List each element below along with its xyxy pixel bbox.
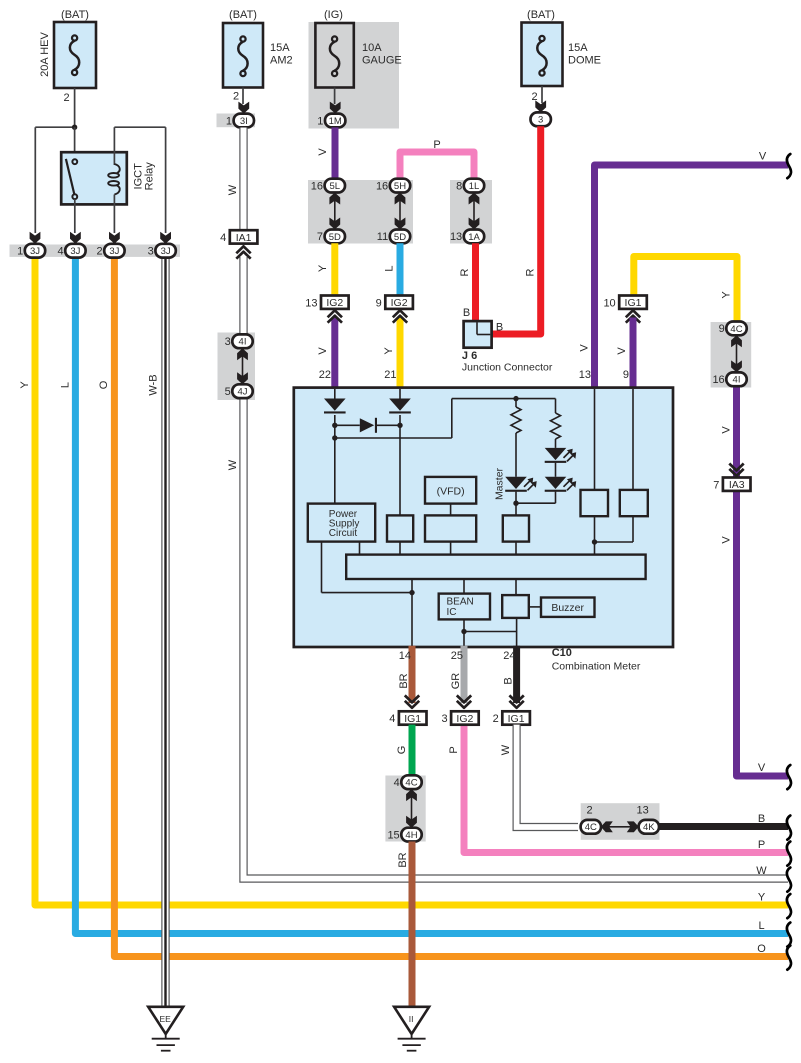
svg-text:3: 3 xyxy=(148,246,154,258)
svg-text:1: 1 xyxy=(17,246,23,258)
svg-text:Master: Master xyxy=(494,467,506,500)
svg-text:5H: 5H xyxy=(394,181,406,192)
svg-text:10: 10 xyxy=(603,297,615,309)
svg-text:25: 25 xyxy=(451,650,463,662)
svg-text:24: 24 xyxy=(503,650,515,662)
svg-text:4: 4 xyxy=(57,246,63,258)
svg-text:3J: 3J xyxy=(161,246,171,257)
svg-text:IG1: IG1 xyxy=(508,713,525,725)
svg-text:IA1: IA1 xyxy=(236,232,252,244)
svg-text:3J: 3J xyxy=(30,246,40,257)
svg-text:L: L xyxy=(384,265,396,271)
svg-text:20A HEV: 20A HEV xyxy=(39,32,51,77)
svg-text:9: 9 xyxy=(719,323,725,335)
svg-text:R: R xyxy=(459,268,471,276)
svg-text:4J: 4J xyxy=(237,387,247,398)
svg-text:15A: 15A xyxy=(270,42,290,54)
svg-text:B: B xyxy=(463,307,470,319)
svg-text:4I: 4I xyxy=(239,337,247,348)
svg-text:4: 4 xyxy=(220,232,226,244)
svg-text:IG2: IG2 xyxy=(391,297,408,309)
svg-text:Y: Y xyxy=(317,264,329,272)
svg-text:GR: GR xyxy=(450,673,462,690)
svg-text:1M: 1M xyxy=(329,116,342,127)
svg-text:IG1: IG1 xyxy=(404,713,421,725)
svg-text:2: 2 xyxy=(63,92,69,104)
svg-text:11: 11 xyxy=(377,231,388,243)
svg-text:2: 2 xyxy=(96,246,102,258)
svg-text:5D: 5D xyxy=(394,232,406,243)
svg-text:3I: 3I xyxy=(240,116,248,127)
svg-text:W-B: W-B xyxy=(148,374,160,395)
svg-text:2: 2 xyxy=(531,91,537,103)
svg-text:4C: 4C xyxy=(585,822,597,833)
svg-text:13: 13 xyxy=(305,297,317,309)
svg-text:9: 9 xyxy=(376,297,382,309)
svg-text:C10: C10 xyxy=(552,647,572,659)
svg-text:V: V xyxy=(317,148,329,156)
svg-text:GAUGE: GAUGE xyxy=(362,55,402,67)
svg-text:8: 8 xyxy=(456,180,462,192)
svg-text:P: P xyxy=(433,139,440,151)
svg-text:1: 1 xyxy=(317,115,323,127)
svg-text:IG2: IG2 xyxy=(326,297,343,309)
svg-text:Relay: Relay xyxy=(144,162,156,191)
svg-text:V: V xyxy=(317,347,329,355)
svg-text:(IG): (IG) xyxy=(324,9,343,21)
svg-text:7: 7 xyxy=(317,231,323,243)
svg-text:W: W xyxy=(227,459,239,470)
svg-text:1A: 1A xyxy=(468,232,480,243)
svg-text:W: W xyxy=(227,184,239,195)
svg-text:13: 13 xyxy=(579,369,591,381)
svg-text:V: V xyxy=(579,344,591,352)
svg-text:13: 13 xyxy=(450,231,462,243)
svg-text:J 6: J 6 xyxy=(462,350,477,362)
svg-text:7: 7 xyxy=(713,479,719,491)
svg-text:P: P xyxy=(448,746,460,753)
svg-text:IG1: IG1 xyxy=(625,297,642,309)
svg-text:(BAT): (BAT) xyxy=(61,9,89,21)
svg-text:IC: IC xyxy=(447,607,457,618)
svg-text:V: V xyxy=(721,426,733,434)
svg-text:4C: 4C xyxy=(405,778,417,789)
svg-text:Y: Y xyxy=(19,381,31,389)
svg-text:V: V xyxy=(721,536,733,544)
svg-text:W: W xyxy=(756,865,767,877)
svg-text:3: 3 xyxy=(538,115,543,126)
svg-text:Buzzer: Buzzer xyxy=(551,602,584,614)
svg-text:II: II xyxy=(409,1014,414,1024)
svg-text:16: 16 xyxy=(311,180,323,192)
svg-text:16: 16 xyxy=(376,180,388,192)
svg-text:DOME: DOME xyxy=(568,55,601,67)
svg-text:Junction Connector: Junction Connector xyxy=(462,362,553,374)
svg-text:BEAN: BEAN xyxy=(447,597,474,608)
svg-text:IG2: IG2 xyxy=(456,713,473,725)
svg-text:2: 2 xyxy=(493,713,499,725)
svg-text:IA3: IA3 xyxy=(729,479,745,491)
svg-text:AM2: AM2 xyxy=(270,55,293,67)
svg-text:(BAT): (BAT) xyxy=(527,9,555,21)
svg-text:L: L xyxy=(60,382,72,388)
svg-text:G: G xyxy=(396,746,408,755)
svg-text:R: R xyxy=(525,268,537,276)
svg-text:V: V xyxy=(759,151,767,163)
svg-text:B: B xyxy=(758,813,765,825)
svg-text:P: P xyxy=(758,839,765,851)
svg-text:4K: 4K xyxy=(643,822,655,833)
svg-text:BR: BR xyxy=(397,852,409,867)
svg-text:B: B xyxy=(496,322,503,334)
svg-text:4C: 4C xyxy=(730,324,742,335)
svg-text:V: V xyxy=(758,762,766,774)
svg-text:3J: 3J xyxy=(109,246,119,257)
svg-text:B: B xyxy=(503,677,515,684)
svg-text:Y: Y xyxy=(758,892,766,904)
svg-text:2: 2 xyxy=(233,91,239,103)
svg-text:2: 2 xyxy=(586,805,592,817)
svg-text:13: 13 xyxy=(636,805,648,817)
svg-text:3: 3 xyxy=(441,713,447,725)
svg-text:9: 9 xyxy=(623,369,629,381)
svg-text:4I: 4I xyxy=(733,375,741,386)
svg-text:3: 3 xyxy=(225,336,231,348)
svg-text:V: V xyxy=(616,347,628,355)
svg-text:10A: 10A xyxy=(362,42,382,54)
svg-text:21: 21 xyxy=(384,369,396,381)
svg-text:3J: 3J xyxy=(70,246,80,257)
svg-text:Circuit: Circuit xyxy=(329,528,358,539)
svg-text:(VFD): (VFD) xyxy=(437,486,465,498)
svg-text:4: 4 xyxy=(389,713,395,725)
svg-text:L: L xyxy=(758,920,764,932)
svg-text:EE: EE xyxy=(160,1014,172,1024)
svg-text:5: 5 xyxy=(225,386,231,398)
svg-text:(BAT): (BAT) xyxy=(229,9,257,21)
svg-text:16: 16 xyxy=(712,374,724,386)
svg-text:W: W xyxy=(500,744,512,755)
svg-text:22: 22 xyxy=(319,369,331,381)
svg-text:BR: BR xyxy=(398,673,410,688)
svg-text:1: 1 xyxy=(226,115,232,127)
svg-text:14: 14 xyxy=(399,650,411,662)
svg-text:1L: 1L xyxy=(469,181,480,192)
svg-text:Y: Y xyxy=(383,347,395,355)
svg-text:4: 4 xyxy=(394,777,400,789)
svg-text:5L: 5L xyxy=(330,181,341,192)
svg-text:5D: 5D xyxy=(329,232,341,243)
svg-text:4H: 4H xyxy=(405,830,417,841)
svg-text:O: O xyxy=(98,380,110,389)
svg-text:Y: Y xyxy=(721,291,733,299)
svg-text:15A: 15A xyxy=(568,42,588,54)
svg-text:15: 15 xyxy=(387,829,399,841)
svg-text:O: O xyxy=(757,943,766,955)
svg-text:Combination Meter: Combination Meter xyxy=(552,661,641,673)
